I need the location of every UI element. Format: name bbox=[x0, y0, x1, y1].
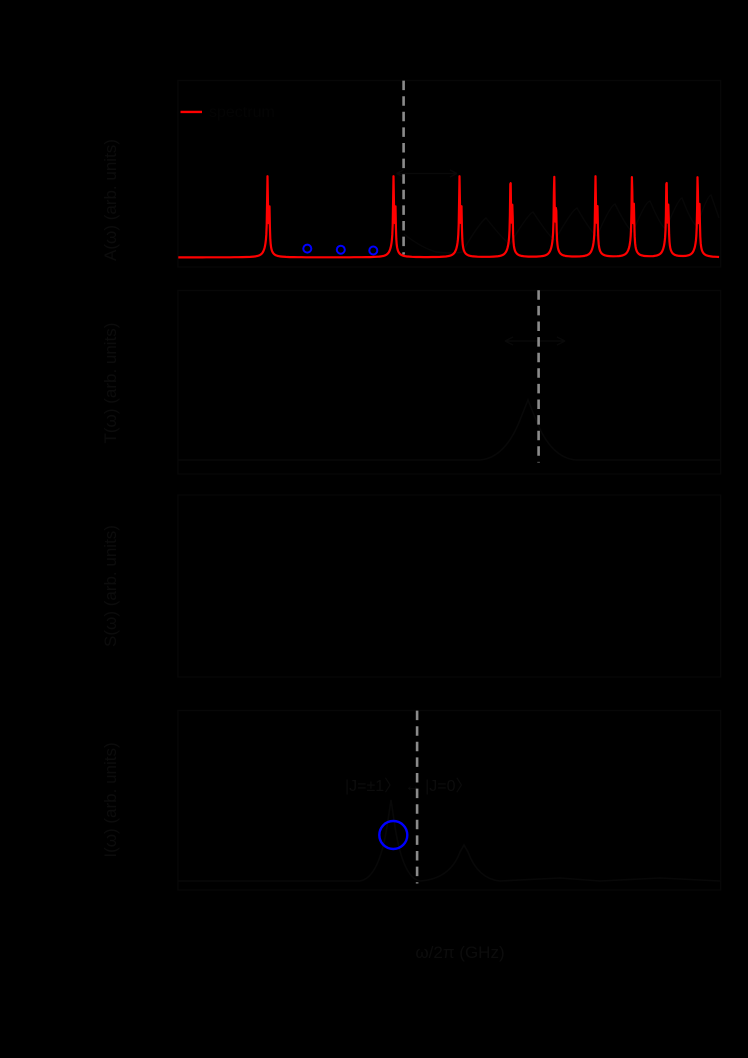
red spectrum curve bbox=[178, 176, 719, 257]
dashed vertical line panel 2 bbox=[537, 290, 540, 462]
faint annotation arrow panel 1 bbox=[397, 170, 458, 177]
svg-text:T(ω) (arb. units): T(ω) (arb. units) bbox=[101, 323, 120, 444]
faint y-axis labels bbox=[101, 139, 505, 962]
faint black curve panel 1 bbox=[404, 195, 719, 253]
dashed vertical line panel 4 bbox=[416, 711, 419, 884]
dashed vertical line panel 1 bbox=[402, 81, 405, 255]
svg-text:I(ω) (arb. units): I(ω) (arb. units) bbox=[101, 742, 120, 857]
faint annotation arrow panel 2 bbox=[505, 337, 565, 345]
svg-text:spectrum: spectrum bbox=[209, 104, 275, 121]
svg-text:S(ω) (arb. units): S(ω) (arb. units) bbox=[101, 525, 120, 647]
svg-text:|J=±1〉 ↔ |J=0〉: |J=±1〉 ↔ |J=0〉 bbox=[345, 778, 471, 795]
faint black spectrum panel 4 bbox=[178, 800, 720, 881]
legend red segment bbox=[181, 111, 203, 113]
faint black curves panel 2 bbox=[178, 400, 720, 460]
svg-text:ω/2π (GHz): ω/2π (GHz) bbox=[415, 943, 504, 962]
small blue circles bbox=[303, 245, 377, 255]
svg-text:A(ω) (arb. units): A(ω) (arb. units) bbox=[101, 139, 120, 261]
big blue circle bbox=[379, 821, 407, 849]
